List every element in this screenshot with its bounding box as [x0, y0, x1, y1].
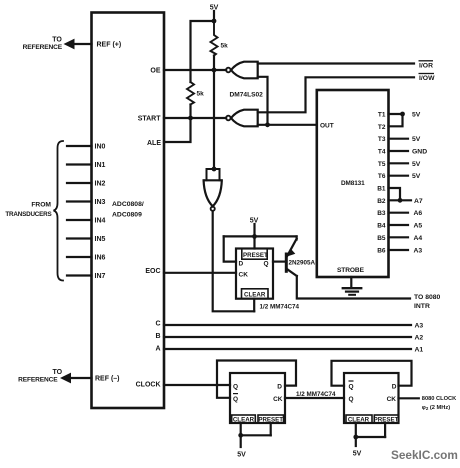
- wire G1 input to I/OR: [258, 62, 414, 64]
- wire EOC to FF1 CK: [164, 272, 236, 274]
- svg-text:T3: T3: [378, 136, 386, 143]
- svg-text:5V: 5V: [412, 173, 421, 180]
- svg-text:ALE: ALE: [147, 140, 161, 147]
- wire T3 to 5V: [389, 138, 409, 140]
- svg-text:C: C: [155, 321, 160, 328]
- svg-text:T6: T6: [378, 173, 386, 180]
- svg-text:I/OW: I/OW: [419, 75, 435, 82]
- svg-text:A3: A3: [414, 248, 423, 255]
- wire START to gate G2: [164, 117, 226, 119]
- wire B6 to A3: [389, 249, 409, 251]
- wire B5 to A4: [389, 236, 409, 238]
- wire FF3 preset-clear tie: [356, 436, 385, 438]
- svg-text:B6: B6: [377, 248, 386, 255]
- junction dot 5V rail: [212, 19, 217, 24]
- wire R1 to DE node: [213, 56, 215, 71]
- resistor R1 5k: [211, 21, 218, 56]
- junction dot START node: [188, 116, 193, 121]
- svg-text:Q: Q: [263, 260, 268, 267]
- svg-text:TO: TO: [53, 369, 63, 376]
- svg-text:INTR: INTR: [414, 303, 430, 310]
- svg-text:CLEAR: CLEAR: [233, 417, 255, 424]
- wire IN2 lead: [67, 182, 92, 184]
- wire REF(-) lead: [69, 377, 92, 379]
- NOR gate G1 DM74LS02: [231, 62, 258, 79]
- wire FF2 PRESET stem: [270, 423, 272, 435]
- svg-text:I/OR: I/OR: [419, 62, 433, 69]
- svg-text:CK: CK: [273, 396, 283, 403]
- junction dot FF1 5V: [252, 234, 257, 239]
- svg-text:ADC0809: ADC0809: [112, 212, 142, 219]
- svg-text:Q: Q: [349, 383, 354, 390]
- junction dot T1: [400, 112, 405, 117]
- svg-text:GND: GND: [412, 149, 427, 156]
- inverter G3 (NOR, inputs tied): [207, 169, 220, 180]
- svg-text:OUT: OUT: [320, 122, 334, 129]
- svg-text:TRANSDUCERS: TRANSDUCERS: [5, 211, 51, 218]
- wire B1-B2 tie: [389, 188, 401, 200]
- svg-text:T5: T5: [378, 161, 386, 168]
- svg-text:A3: A3: [415, 323, 424, 330]
- svg-text:B3: B3: [377, 210, 386, 217]
- svg-text:STROBE: STROBE: [337, 267, 365, 274]
- wire FF3 PRESET stem: [384, 423, 386, 437]
- svg-text:Q: Q: [349, 396, 354, 403]
- flip-flop U4A 1/2 MM74C74 body (left): [230, 373, 285, 423]
- wire G2 input to I/OW: [258, 77, 414, 112]
- wire FF3 feedback Qbar to D: [332, 361, 412, 386]
- wire B4 to A5: [389, 224, 409, 226]
- svg-text:B: B: [155, 333, 160, 340]
- svg-text:A7: A7: [414, 198, 423, 205]
- NOR gate G2 DM74LS02: [231, 110, 258, 127]
- wire rail to PRESET FF1: [253, 236, 255, 248]
- CLEAR label box FF2: [232, 415, 256, 423]
- svg-text:Q: Q: [233, 396, 238, 403]
- wire rail to D input FF1: [224, 236, 236, 261]
- svg-text:REF (+): REF (+): [97, 42, 122, 49]
- svg-text:1/2 MM74C74: 1/2 MM74C74: [260, 303, 300, 310]
- flip-flop U3A 1/2 MM74C74 body: [236, 249, 273, 299]
- svg-text:IN0: IN0: [95, 144, 106, 151]
- svg-text:A: A: [155, 346, 160, 353]
- svg-text:8080 CLOCK: 8080 CLOCK: [422, 396, 457, 402]
- svg-text:A6: A6: [414, 210, 423, 217]
- svg-text:FROM: FROM: [31, 202, 51, 209]
- svg-text:B2: B2: [377, 198, 386, 205]
- transistor Q1 2N2905A: [285, 254, 288, 271]
- wire T4 to GND: [389, 150, 409, 152]
- wire IN5 lead: [67, 237, 92, 239]
- wire FF2 CLEAR stem: [240, 423, 242, 435]
- wire FF3 CK to 8080 clock: [399, 397, 419, 399]
- svg-text:A5: A5: [414, 223, 423, 230]
- ground below STROBE: [350, 277, 352, 287]
- wire FF1 CLEAR stem: [253, 299, 255, 312]
- wire T1 to 5V: [389, 113, 403, 115]
- wire REF(+) lead: [72, 43, 92, 45]
- IC U2 DM8131 body: [317, 90, 389, 277]
- junction dot OUT node: [265, 122, 270, 127]
- PRESET label box FF3: [374, 415, 398, 423]
- svg-text:D: D: [277, 383, 282, 390]
- wire FF1 Q to Q1 base: [273, 261, 285, 263]
- wire G3 output to FF1 CLEAR: [213, 211, 255, 311]
- wire IN4 lead: [67, 219, 92, 221]
- svg-text:PRESET: PRESET: [243, 252, 268, 259]
- svg-text:TO 8080: TO 8080: [414, 294, 441, 301]
- svg-text:5V: 5V: [412, 112, 421, 119]
- svg-text:5V: 5V: [237, 452, 246, 459]
- svg-text:REFERENCE: REFERENCE: [23, 44, 63, 51]
- wire IN6 lead: [67, 256, 92, 258]
- svg-text:CK: CK: [239, 271, 249, 278]
- svg-text:PRESET: PRESET: [258, 417, 283, 424]
- svg-text:CLOCK: CLOCK: [136, 382, 161, 389]
- svg-text:SeekIC.com: SeekIC.com: [391, 448, 458, 462]
- wire IN7 lead: [67, 274, 92, 276]
- wire FF2 5V stem: [240, 435, 242, 447]
- junction dot DE node: [212, 68, 217, 73]
- wire T6 to 5V: [389, 175, 409, 177]
- IC U1 ADC0808/ADC0809 body: [92, 13, 165, 409]
- CLEAR label box FF1: [242, 289, 269, 299]
- svg-text:REF (–): REF (–): [95, 376, 120, 383]
- svg-text:CK: CK: [387, 396, 397, 403]
- wire CLOCK to FF2 Q: [164, 384, 230, 386]
- wire 5V rail to resistor R2 branch: [191, 21, 215, 82]
- wire DE node down to inverter G3: [213, 70, 215, 169]
- wire R2 to START node: [189, 105, 191, 119]
- wire collector to 8080 INTR: [297, 276, 410, 299]
- svg-text:5V: 5V: [210, 5, 219, 12]
- PRESET label box FF1: [242, 249, 267, 260]
- wire OUT to G2 input: [258, 124, 317, 126]
- svg-text:OE: OE: [150, 68, 160, 75]
- svg-text:1/2 MM74C74: 1/2 MM74C74: [296, 391, 336, 398]
- svg-text:IN3: IN3: [95, 199, 106, 206]
- svg-text:A1: A1: [415, 347, 424, 354]
- svg-text:CLEAR: CLEAR: [348, 417, 370, 424]
- junction dot B2: [398, 198, 403, 203]
- arrow to reference (top): [64, 39, 75, 50]
- brace grouping transducer inputs: [54, 141, 64, 281]
- svg-text:5V: 5V: [353, 450, 362, 457]
- svg-text:B5: B5: [377, 235, 386, 242]
- svg-text:PRESET: PRESET: [374, 417, 399, 424]
- wire FF2 preset-clear tie: [241, 434, 271, 436]
- wire T5 to 5V: [389, 162, 409, 164]
- svg-text:2N2905A: 2N2905A: [289, 259, 316, 266]
- wire IN0 lead: [67, 145, 92, 147]
- wire START node to ALE: [164, 118, 191, 142]
- junction dot FF2 5V: [238, 433, 243, 438]
- svg-text:B1: B1: [377, 186, 386, 193]
- node 5V flip-flop FF1: [253, 224, 255, 236]
- svg-text:DM8131: DM8131: [341, 180, 365, 187]
- wire C to A3: [164, 324, 411, 326]
- svg-text:5V: 5V: [250, 218, 259, 225]
- svg-text:5k: 5k: [197, 91, 205, 98]
- wire DE to gate G1: [164, 69, 226, 71]
- svg-text:T2: T2: [378, 124, 386, 131]
- wire A to A1: [164, 348, 411, 350]
- svg-text:A2: A2: [415, 335, 424, 342]
- svg-text:T1: T1: [378, 112, 386, 119]
- svg-text:IN2: IN2: [95, 181, 106, 188]
- wire T1-T2 tie: [389, 114, 403, 126]
- node 5V pull-up rail top: [213, 11, 215, 21]
- resistor R2 5k: [187, 82, 194, 105]
- svg-text:ADC0808/: ADC0808/: [112, 201, 144, 208]
- wire IN3 lead: [67, 200, 92, 202]
- svg-text:TO: TO: [52, 37, 62, 44]
- svg-text:START: START: [138, 116, 162, 123]
- svg-text:A4: A4: [414, 235, 423, 242]
- PRESET label box FF2: [258, 415, 284, 423]
- svg-text:5V: 5V: [412, 161, 421, 168]
- junction dot FF3 5V: [353, 435, 358, 440]
- wire rail to Q1 emitter: [296, 236, 298, 239]
- svg-text:φ2 (2 MHz): φ2 (2 MHz): [422, 405, 450, 411]
- svg-text:IN1: IN1: [95, 162, 106, 169]
- arrow to reference (bottom): [60, 373, 71, 384]
- wire FF2 feedback Qbar to D: [217, 361, 296, 398]
- wire FF3 Q to FF2 CK: [285, 397, 344, 399]
- flip-flop U4B 1/2 MM74C74 body (right): [344, 373, 399, 423]
- svg-text:IN5: IN5: [95, 236, 106, 243]
- svg-text:CLEAR: CLEAR: [244, 292, 266, 299]
- svg-text:IN7: IN7: [95, 273, 106, 280]
- svg-text:REFERENCE: REFERENCE: [18, 376, 58, 383]
- svg-text:IN6: IN6: [95, 255, 106, 262]
- junction dot inverter input: [212, 167, 217, 172]
- wire B2 to A7: [389, 199, 412, 201]
- svg-text:5V: 5V: [412, 136, 421, 143]
- CLEAR label box FF3: [346, 415, 372, 423]
- svg-text:DM74LS02: DM74LS02: [230, 92, 264, 99]
- svg-text:T4: T4: [378, 149, 386, 156]
- svg-text:D: D: [392, 383, 397, 390]
- svg-text:EOC: EOC: [145, 268, 160, 275]
- wire B3 to A6: [389, 212, 409, 214]
- svg-text:D: D: [239, 260, 244, 267]
- svg-text:B4: B4: [377, 223, 386, 230]
- wire 5V rail over FF1: [224, 235, 297, 237]
- wire FF3 5V stem: [355, 437, 357, 446]
- wire FF3 CLEAR stem: [355, 423, 357, 437]
- wire G1 input to OUT node: [258, 77, 268, 125]
- svg-text:Q: Q: [233, 383, 238, 390]
- wire IN1 lead: [67, 163, 92, 165]
- wire B to A2: [164, 336, 411, 338]
- svg-text:IN4: IN4: [95, 218, 106, 225]
- svg-text:5k: 5k: [221, 43, 229, 50]
